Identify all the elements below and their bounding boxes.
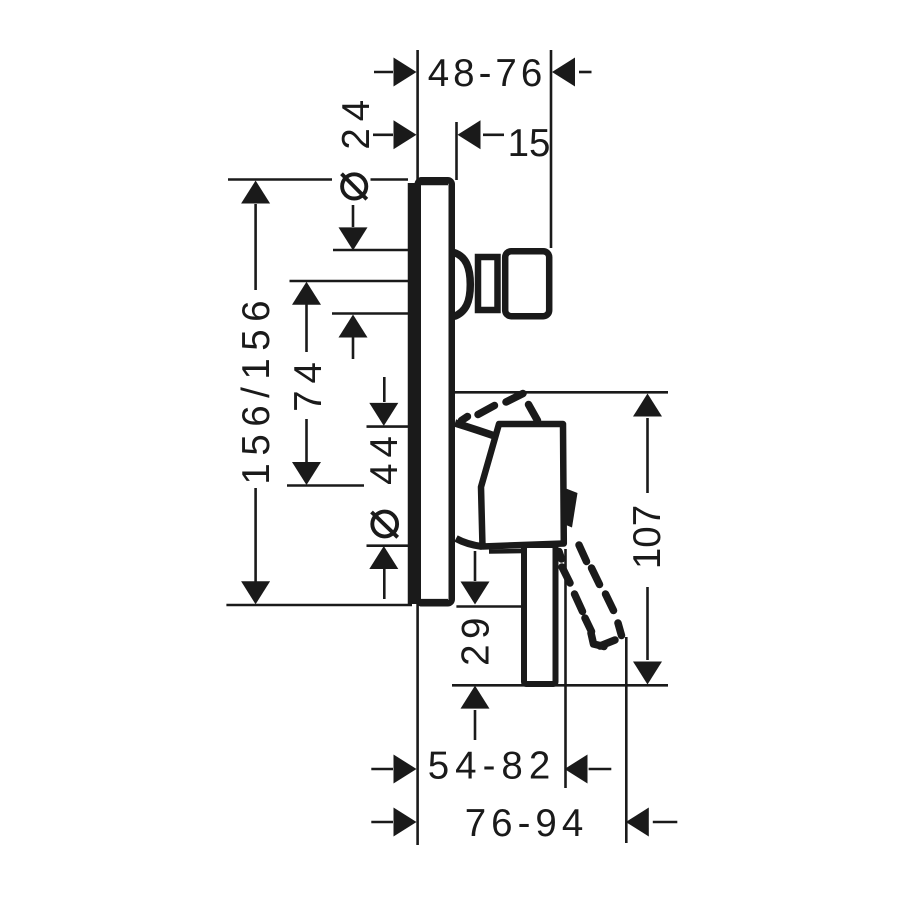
svg-text:48-76: 48-76 bbox=[428, 52, 546, 95]
svg-text:76-94: 76-94 bbox=[465, 802, 588, 845]
svg-text:107: 107 bbox=[626, 505, 669, 569]
svg-text:44: 44 bbox=[363, 430, 406, 485]
svg-text:29: 29 bbox=[455, 612, 498, 666]
svg-text:156/156: 156/156 bbox=[235, 293, 278, 485]
svg-text:24: 24 bbox=[335, 93, 378, 150]
svg-text:74: 74 bbox=[287, 355, 330, 412]
svg-text:15: 15 bbox=[508, 122, 551, 165]
svg-text:54-82: 54-82 bbox=[428, 745, 556, 788]
